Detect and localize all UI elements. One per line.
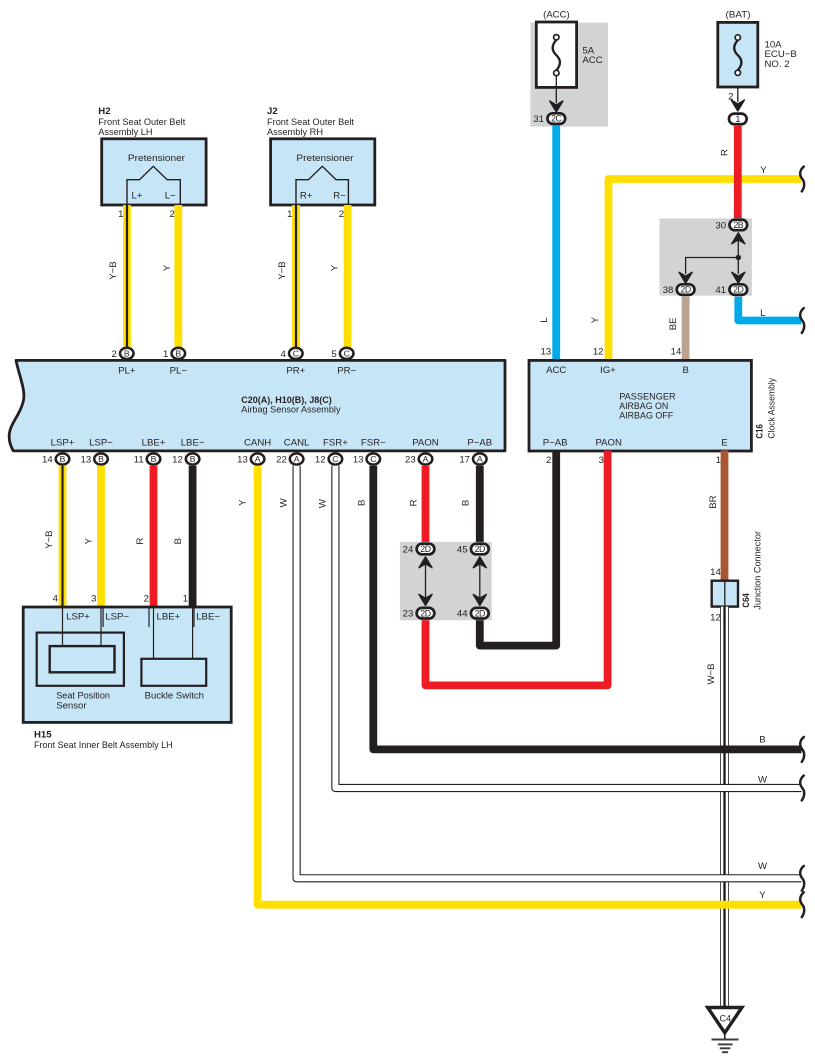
svg-text:C16: C16 <box>755 424 766 439</box>
svg-text:Pretensioner: Pretensioner <box>128 153 186 164</box>
svg-text:P−AB: P−AB <box>467 438 492 449</box>
svg-text:H15: H15 <box>34 730 52 741</box>
fuse BAT rating text <box>765 40 797 70</box>
ECU C16 clock assembly box <box>529 360 751 451</box>
svg-text:LBE−: LBE− <box>181 438 205 449</box>
svg-text:4: 4 <box>280 349 286 360</box>
pretensioner J2 box <box>271 139 375 205</box>
svg-text:23: 23 <box>405 454 416 465</box>
svg-text:2: 2 <box>169 209 174 220</box>
C16 title text <box>619 392 675 422</box>
H15 terminal dividers <box>103 607 194 627</box>
wire J2 pin2 Y yellow <box>344 205 352 347</box>
svg-text:L: L <box>760 308 766 319</box>
wire FSR- B down and right to break <box>373 466 801 750</box>
svg-text:H2: H2 <box>98 106 110 117</box>
wire B black from 44 2D to C16 P-AB <box>480 451 556 646</box>
pin oval 5 C <box>340 348 354 359</box>
wire R red from 23 2D to C16 PAON <box>426 451 608 686</box>
pin oval 1 B <box>172 348 186 359</box>
svg-text:2D: 2D <box>420 544 430 554</box>
seat position sensor inner <box>50 646 115 672</box>
svg-text:LSP+: LSP+ <box>66 612 90 623</box>
svg-text:1: 1 <box>716 455 721 466</box>
svg-text:B: B <box>460 500 471 506</box>
internal link wires <box>686 240 739 274</box>
svg-text:Front Seat Inner Belt Assembly: Front Seat Inner Belt Assembly LH <box>34 740 173 751</box>
wire BE beige from 38 2D to C16 B <box>682 297 690 361</box>
break symbol black <box>800 737 804 762</box>
svg-text:R: R <box>408 499 419 506</box>
svg-text:W−B: W−B <box>706 663 717 684</box>
svg-text:22: 22 <box>276 454 287 465</box>
svg-text:C4: C4 <box>720 1014 732 1024</box>
svg-text:2: 2 <box>546 455 551 466</box>
svg-text:Buckle Switch: Buckle Switch <box>145 690 204 701</box>
svg-text:2: 2 <box>339 209 344 220</box>
svg-text:A: A <box>255 454 261 464</box>
svg-text:Assembly RH: Assembly RH <box>267 127 323 138</box>
H15 label <box>34 730 173 752</box>
fuse ACC 5A box <box>536 22 576 87</box>
junction block 2B-2D gray <box>660 218 752 295</box>
pretensioner H2 squib symbol <box>127 166 180 205</box>
wire J2 pin1 Y-B yellow-black <box>292 205 300 347</box>
svg-text:L+: L+ <box>132 191 143 202</box>
svg-text:LBE−: LBE− <box>196 612 220 623</box>
svg-text:2D: 2D <box>733 285 743 295</box>
pin oval 4 C <box>289 348 303 359</box>
svg-text:Y: Y <box>238 499 249 506</box>
svg-text:23: 23 <box>403 609 414 620</box>
seat position sensor outer <box>37 633 124 686</box>
wire R red from BAT fuse to relay 2B <box>734 126 742 218</box>
svg-text:1: 1 <box>163 349 168 360</box>
svg-text:FSR+: FSR+ <box>323 438 348 449</box>
wire fuse BAT to connector <box>737 87 739 102</box>
svg-text:Assembly LH: Assembly LH <box>98 127 152 138</box>
wire LBE- B <box>189 466 197 607</box>
junction dot <box>736 255 741 260</box>
svg-text:17: 17 <box>459 454 470 465</box>
break symbol yellow bottom <box>800 892 804 917</box>
svg-text:Y: Y <box>760 165 767 176</box>
svg-text:A: A <box>294 454 300 464</box>
wire CANH Y down and right to break <box>258 466 802 905</box>
svg-text:ACC: ACC <box>546 365 566 376</box>
svg-text:B: B <box>175 349 181 359</box>
svg-text:1: 1 <box>118 209 123 220</box>
connector J2 label <box>267 106 354 138</box>
wire CANL W down and right to break <box>297 466 802 879</box>
svg-text:LSP+: LSP+ <box>51 438 75 449</box>
fuse BAT 10A ECU-B box <box>718 22 758 87</box>
svg-text:14: 14 <box>42 454 53 465</box>
svg-text:(ACC): (ACC) <box>543 10 570 21</box>
svg-text:Y: Y <box>330 264 341 271</box>
svg-text:IG+: IG+ <box>600 365 616 376</box>
svg-text:PL+: PL+ <box>118 366 136 377</box>
svg-text:PAON: PAON <box>595 438 622 449</box>
pretensioner H2 box <box>102 139 206 205</box>
connector H2 label <box>98 106 185 138</box>
wire PAON R to 24 2D <box>422 466 430 543</box>
svg-text:30: 30 <box>715 220 726 231</box>
arrow down into 41 2D <box>732 272 745 283</box>
svg-text:41: 41 <box>715 285 726 296</box>
svg-text:A: A <box>477 454 483 464</box>
svg-text:2C: 2C <box>551 114 562 124</box>
svg-text:PAON: PAON <box>412 438 439 449</box>
svg-text:1: 1 <box>287 209 292 220</box>
pretensioner J2 squib symbol <box>296 166 348 205</box>
fuse ACC gray block <box>530 23 608 127</box>
pin oval 38 2D <box>677 284 695 295</box>
svg-text:C: C <box>370 454 376 464</box>
svg-text:B: B <box>190 454 196 464</box>
wire P-AB B to 45 2D <box>476 466 484 543</box>
wire Y yellow from C16 IG+ up and right to break <box>609 179 802 360</box>
svg-text:B: B <box>60 454 66 464</box>
junction connector C64 box <box>712 581 738 607</box>
pin oval 24 2D <box>417 544 435 555</box>
svg-text:B: B <box>151 454 157 464</box>
svg-text:B: B <box>173 538 184 544</box>
svg-text:12: 12 <box>710 613 721 624</box>
svg-text:1: 1 <box>736 114 741 124</box>
svg-text:Y: Y <box>759 890 766 901</box>
pin oval 2 B <box>120 348 134 359</box>
ground C4 triangle <box>708 1008 742 1033</box>
break symbol white 1 <box>800 776 804 801</box>
svg-text:2D: 2D <box>420 608 430 618</box>
wire fuse ACC to connector <box>555 76 557 103</box>
svg-text:C: C <box>293 349 299 359</box>
wire BR brown from C16 E to C64 <box>721 451 729 581</box>
buckle switch box <box>141 659 206 686</box>
svg-text:Clock Assembly: Clock Assembly <box>766 378 777 439</box>
svg-text:W: W <box>279 497 290 507</box>
svg-text:L−: L− <box>165 191 176 202</box>
arrow up into 45 2D <box>473 557 486 568</box>
svg-text:PL−: PL− <box>170 366 188 377</box>
wire W-B from C64 to ground <box>720 607 729 1008</box>
break symbol yellow top <box>800 167 804 192</box>
svg-text:2D: 2D <box>680 285 690 295</box>
svg-text:C: C <box>332 454 338 464</box>
svg-text:Y−B: Y−B <box>108 261 119 279</box>
svg-text:Pretensioner: Pretensioner <box>296 153 354 164</box>
svg-text:W: W <box>758 775 768 786</box>
svg-text:AIRBAG OFF: AIRBAG OFF <box>619 411 673 422</box>
svg-text:31: 31 <box>533 114 544 125</box>
svg-text:LBE+: LBE+ <box>157 612 181 623</box>
svg-text:14: 14 <box>710 567 721 578</box>
seat position sensor text <box>56 690 110 711</box>
break symbol white 2 <box>800 866 804 891</box>
svg-text:1: 1 <box>183 593 188 604</box>
wire LSP+ Y-B <box>59 466 67 607</box>
svg-text:2D: 2D <box>475 608 485 618</box>
svg-text:2: 2 <box>111 349 116 360</box>
svg-text:NO. 2: NO. 2 <box>765 59 790 70</box>
fuse ACC element <box>553 40 560 71</box>
break symbol blue <box>800 308 804 333</box>
fuse BAT element <box>734 40 741 70</box>
svg-text:CANL: CANL <box>284 438 310 449</box>
svg-text:LBE+: LBE+ <box>142 438 166 449</box>
pin oval 45 2D <box>471 544 489 555</box>
svg-text:2B: 2B <box>733 220 743 230</box>
svg-text:13: 13 <box>237 454 248 465</box>
link wires 2D <box>426 564 480 598</box>
svg-text:Y: Y <box>83 537 94 544</box>
svg-text:B: B <box>682 365 688 376</box>
svg-text:38: 38 <box>663 285 674 296</box>
svg-text:13: 13 <box>353 454 364 465</box>
svg-text:PR−: PR− <box>337 366 356 377</box>
svg-text:W: W <box>758 861 768 872</box>
svg-text:14: 14 <box>671 346 682 357</box>
ground symbol <box>712 1033 739 1052</box>
svg-text:Sensor: Sensor <box>56 701 87 712</box>
svg-text:E: E <box>721 438 727 449</box>
svg-text:(BAT): (BAT) <box>726 9 751 20</box>
wire LSP- Y <box>97 466 105 607</box>
pin oval 30 2B <box>729 220 747 231</box>
arrow down into 38 2D <box>679 272 692 283</box>
svg-text:13: 13 <box>541 346 552 357</box>
svg-text:C: C <box>344 349 350 359</box>
arrow up into 24 2D <box>419 557 432 568</box>
wire L blue from 41 2D right to break <box>738 297 801 321</box>
arrow into 2C <box>550 101 563 112</box>
svg-text:LSP−: LSP− <box>89 438 113 449</box>
svg-text:B: B <box>357 500 368 506</box>
svg-text:B: B <box>124 349 130 359</box>
svg-text:13: 13 <box>81 454 92 465</box>
ECU airbag sensor assembly box <box>9 360 505 451</box>
H15 internal wires <box>63 607 193 659</box>
pin oval 23 2D <box>417 608 435 619</box>
sensor assembly title <box>241 395 340 416</box>
wire H2 pin1 Y-B yellow-black <box>123 205 131 347</box>
svg-text:W: W <box>318 498 329 508</box>
pin oval 41 2D <box>729 284 747 295</box>
svg-text:B: B <box>98 454 104 464</box>
svg-text:R: R <box>719 149 730 156</box>
svg-text:BE: BE <box>668 317 679 330</box>
arrow into oval 1 <box>731 100 744 111</box>
svg-text:12: 12 <box>593 346 604 357</box>
svg-text:L: L <box>539 317 550 323</box>
svg-text:45: 45 <box>457 545 468 556</box>
svg-text:R+: R+ <box>300 191 313 202</box>
svg-text:BR: BR <box>708 495 719 508</box>
svg-text:5: 5 <box>331 349 336 360</box>
pin oval 1 <box>729 114 747 125</box>
wire L blue from ACC fuse to C16 ACC <box>552 126 560 361</box>
pin oval 44 2D <box>471 608 489 619</box>
fuse ACC rating text <box>582 46 602 67</box>
svg-text:B: B <box>759 735 765 746</box>
connector H15 box <box>23 607 231 722</box>
svg-text:A: A <box>423 454 429 464</box>
wire LBE+ R <box>150 466 158 607</box>
svg-text:4: 4 <box>53 593 59 604</box>
svg-text:C64: C64 <box>741 593 752 608</box>
arrow down into 44 2D <box>473 594 486 605</box>
svg-text:3: 3 <box>91 593 96 604</box>
svg-text:12: 12 <box>315 454 326 465</box>
svg-text:FSR−: FSR− <box>361 438 386 449</box>
svg-text:2D: 2D <box>475 544 485 554</box>
svg-text:R: R <box>135 538 146 545</box>
svg-text:P−AB: P−AB <box>543 438 568 449</box>
arrow up into 2B <box>732 233 745 244</box>
svg-text:Y: Y <box>162 264 173 271</box>
svg-text:Junction Connector: Junction Connector <box>752 530 763 609</box>
svg-text:Y: Y <box>590 316 601 323</box>
svg-text:PR+: PR+ <box>286 366 305 377</box>
svg-text:3: 3 <box>599 455 604 466</box>
wire FSR+ W down and right to break <box>335 466 801 788</box>
svg-text:Y−B: Y−B <box>44 530 55 548</box>
svg-text:CANH: CANH <box>244 438 271 449</box>
wire H2 pin2 Y yellow <box>174 205 182 347</box>
svg-text:LSP−: LSP− <box>105 612 129 623</box>
svg-text:12: 12 <box>172 454 183 465</box>
svg-text:2: 2 <box>144 593 149 604</box>
junction block 2D gray <box>400 542 492 620</box>
pin oval 31 2C <box>547 113 565 124</box>
svg-text:ACC: ACC <box>582 55 602 66</box>
svg-text:24: 24 <box>403 545 414 556</box>
svg-text:Airbag Sensor Assembly: Airbag Sensor Assembly <box>241 405 340 416</box>
svg-text:Y−B: Y−B <box>277 261 288 279</box>
svg-text:J2: J2 <box>267 106 278 117</box>
arrow down into 23 2D <box>419 594 432 605</box>
svg-text:44: 44 <box>457 609 468 620</box>
svg-text:R−: R− <box>333 191 346 202</box>
svg-text:11: 11 <box>134 454 144 465</box>
